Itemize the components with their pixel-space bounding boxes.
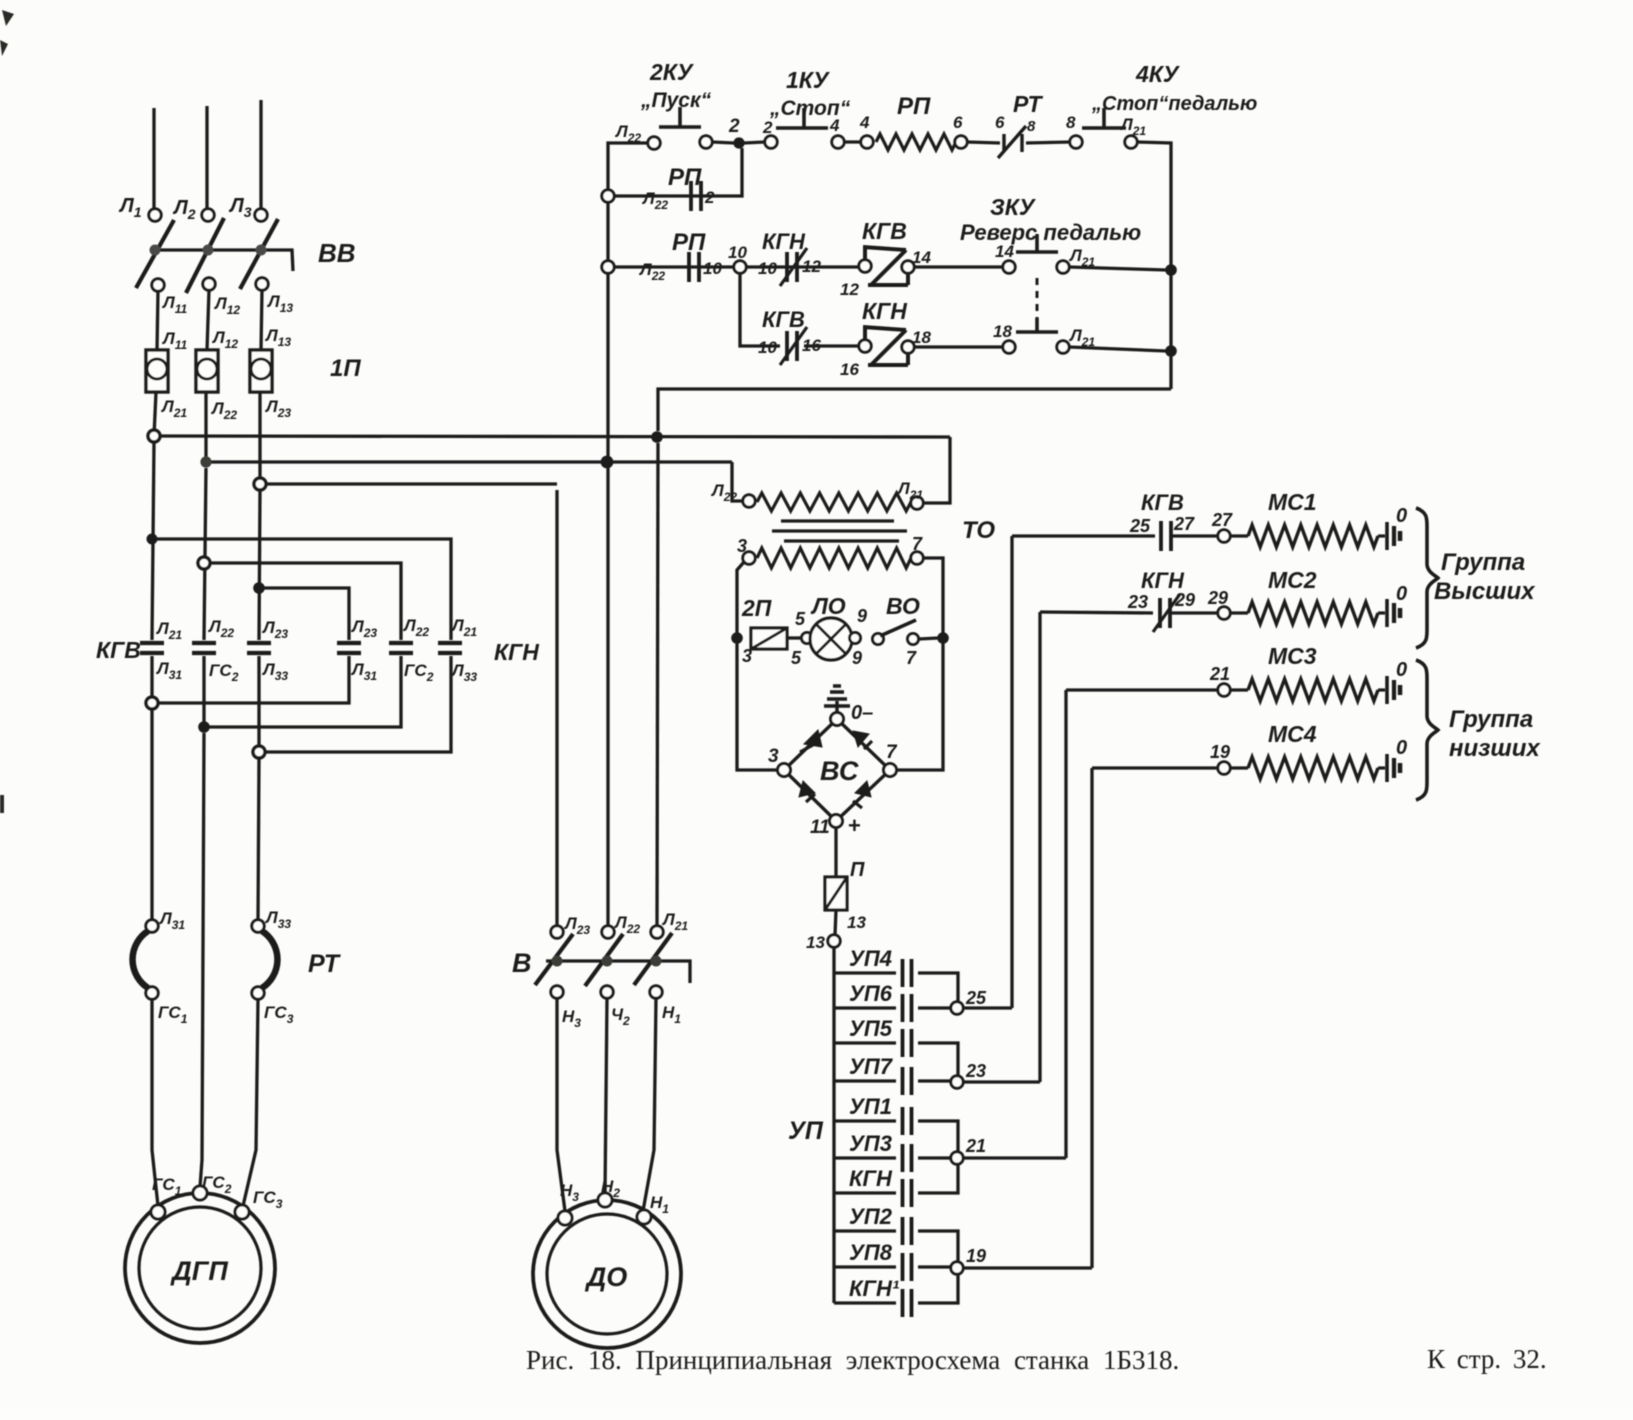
wire MC2 row left [1040,612,1153,613]
node 21 [951,1152,963,1164]
node L21 B switch [651,926,663,938]
wire L23 bridge to KGN contact 4 [259,588,349,640]
node L2 terminal [202,209,214,221]
svg-text:0–: 0– [851,702,873,724]
contactor contact KGV 2 [192,643,216,653]
svg-text:УП4: УП4 [849,946,892,971]
clutch winding MC3 [1248,679,1378,701]
svg-text:УП5: УП5 [849,1016,893,1041]
node 29 [1218,607,1230,619]
brace group higher [1416,508,1438,648]
svg-text:КГВ: КГВ [762,307,805,332]
contact RT thermal NC [998,126,1026,158]
pushbutton 2KU start NO [659,107,701,127]
svg-text:КГН: КГН [762,229,806,254]
wire L33 down to RT2 [258,758,259,920]
svg-text:21: 21 [965,1136,986,1156]
wire UP7 to node23 [940,1079,951,1082]
switch ВО [873,620,919,645]
svg-text:12: 12 [802,257,821,276]
transformer TO core [772,521,907,541]
svg-text:ВО: ВО [886,593,920,619]
contact KGV 25-27 [1161,521,1171,551]
wire B switch bus [546,961,690,983]
wire L22 bridge to KGN contact 5 [204,563,401,640]
pushbutton 1KU stop NC [765,108,844,148]
junction bus L21 left [148,430,160,442]
svg-text:МС2: МС2 [1268,567,1317,593]
node L22 start button [648,137,660,149]
svg-text:0: 0 [1396,505,1407,527]
svg-text:ВВ: ВВ [318,238,356,268]
svg-text:УП3: УП3 [849,1131,892,1156]
wire L11 to fuse [157,291,158,350]
wire node25 right [963,1006,1012,1009]
svg-text:9: 9 [852,648,862,668]
plug switch УП5 row [834,1029,940,1057]
wire L21 return to bus1 [658,389,1171,431]
svg-text:8: 8 [1027,118,1036,135]
plug switch УП2 row [834,1217,940,1245]
node 14 3KU left [1003,261,1015,273]
wire N1 to motor DO [643,998,656,1211]
wire node10 down to row3 [740,273,780,346]
svg-text:19: 19 [966,1246,986,1266]
svg-text:10: 10 [758,259,777,278]
svg-text:19: 19 [1210,742,1230,762]
clutch winding MC1 [1248,525,1378,547]
svg-text:низших: низших [1449,735,1541,762]
contact KGN NC 10-12 [780,248,807,286]
node L22 B switch [602,926,614,938]
wire L22 tap to control [608,143,654,190]
svg-text:ЛО: ЛО [810,593,846,619]
svg-text:25: 25 [1129,516,1151,536]
svg-text:В: В [512,948,532,978]
wire TO sec 7 down to VS 7 [897,558,943,770]
switch 3KU reverse pedal row2 [1016,234,1058,252]
wire node23 right [963,1080,1040,1083]
clutch winding MC4 [1248,757,1378,779]
svg-text:КГВ: КГВ [96,637,141,663]
switch B blade 2 [585,934,623,986]
wire L33 bottom bridge [259,656,451,752]
svg-text:0: 0 [1396,583,1407,605]
svg-text:2: 2 [762,118,773,137]
node 2KU right [700,136,712,148]
wire L21 down to KGV contact 1 [152,442,154,640]
node 18 row3 [1003,341,1015,353]
node 3KU right row2 [1057,261,1069,273]
svg-text:КГВ: КГВ [862,218,907,244]
mechanical link 3KU dashed [1036,278,1039,330]
node 23 [951,1076,963,1088]
wire L21 bridge to KGN contact 6 [152,539,451,640]
svg-text:УП8: УП8 [849,1240,893,1265]
wire MC4 row left [1092,766,1218,769]
svg-text:18: 18 [993,322,1012,341]
svg-text:21: 21 [1209,664,1230,684]
junction lamp branch right [937,632,949,644]
svg-text:7: 7 [886,742,898,763]
node L12 [203,278,215,290]
svg-text:РТ: РТ [1013,91,1043,117]
junction BB blade 2 [203,245,214,256]
wire L13 to fuse [261,290,262,350]
clutch symbol MC3 [1378,676,1400,704]
svg-text:0: 0 [1396,659,1407,681]
node N2 [601,986,613,998]
svg-text:11: 11 [810,817,830,838]
svg-text:29: 29 [1207,588,1228,608]
contact KGV NC 10-16 [780,327,807,365]
svg-text:27: 27 [1211,510,1233,530]
svg-text:ТО: ТО [962,517,995,544]
wire UP1 to node21 [940,1121,958,1152]
junction L31 bottom [146,697,158,709]
contact KGN 23-29 NC [1153,594,1180,632]
svg-text:12: 12 [840,280,859,299]
plug switch УП8 row [834,1253,940,1281]
wire right bus L21 control [1137,142,1171,389]
switch 3KU reverse pedal row3 [1016,318,1058,332]
ground symbol VS [824,686,850,712]
svg-text:УП7: УП7 [849,1054,894,1079]
node TO primary L21 [911,497,923,509]
plug switch УП3 row [834,1144,940,1172]
svg-text:П: П [850,859,865,881]
svg-text:10: 10 [728,243,747,262]
junction right bus row2 [1165,264,1177,276]
svg-text:4КУ: 4КУ [1135,61,1181,87]
wire coil to 3KU [914,265,1003,268]
switch BB blade 3 [240,219,278,289]
diode VS bottom-left [799,781,815,802]
plug switch УП4 row [834,959,940,987]
svg-text:14: 14 [912,248,931,267]
node RP row2 left [602,261,614,273]
wire node25 up to MC1 [1010,536,1013,1008]
node RP selfhold left [602,190,614,202]
clutch symbol MC1 [1378,522,1400,550]
wire left vertical control [606,202,609,261]
svg-text:8: 8 [1066,113,1076,132]
contactor contact KGN 1 [337,643,361,653]
svg-text:16: 16 [840,360,859,379]
clutch winding MC2 [1248,602,1378,624]
thermal element RT phase 1 [133,920,159,999]
switch B blade 3 [634,933,672,985]
node TO primary L22 [743,495,755,507]
diode VS top-right [853,731,872,749]
wire L23 down to KGV contact 3 [259,490,260,640]
svg-text:13: 13 [806,933,825,952]
node 25 [951,1002,963,1014]
node 4 RP coil left [861,136,873,148]
junction B blade 3 [651,956,662,967]
wire node23 up to MC2 [1038,612,1041,1082]
svg-text:4: 4 [859,113,870,132]
wire node10 to KGN contact [746,265,859,268]
svg-text:РП: РП [897,93,931,120]
wire L21 fuse to bus1 [154,392,156,436]
wire VO to right wall [919,638,938,639]
wire node19 up to MC4 [1090,768,1093,1268]
svg-text:23: 23 [965,1061,986,1081]
motor DO [533,1193,681,1348]
svg-text:3: 3 [737,536,747,556]
wire KGN row to node21 [940,1164,958,1193]
pushbutton 4KU stop pedal NC [1070,108,1137,148]
wire L22 down to KGV contact 2 [204,468,206,640]
wire L12 to fuse [207,290,209,350]
wire UP2 to node19 [940,1231,958,1262]
junction L23 bridge [253,582,265,594]
brace group lower [1416,660,1438,800]
wire L23 down to B switch [555,490,558,926]
svg-text:КГН: КГН [494,639,539,665]
wire 1KU to RP coil [844,140,861,143]
svg-text:1П: 1П [330,355,361,382]
wire bus2 to TO primary L22 [732,462,743,501]
wire MC1 row left [1012,534,1155,537]
junction right bus row3 [1165,345,1177,357]
wire L31 down to RT1 [150,709,153,920]
svg-text:27: 27 [1173,514,1195,534]
svg-text:29: 29 [1174,590,1195,610]
plug switch УП1 row [834,1107,940,1135]
node N1 [650,986,662,998]
switch BB blade 1 [136,220,174,288]
wire L31 bottom bridge [152,656,349,703]
svg-text:6: 6 [953,113,963,132]
svg-text:2: 2 [704,188,715,207]
node N3 [551,986,563,998]
node 19 [951,1262,963,1274]
wire BB switch bus [153,250,293,271]
svg-text:18: 18 [912,328,931,347]
svg-text:3: 3 [768,746,779,767]
svg-text:РТ: РТ [308,950,342,978]
svg-text:25: 25 [965,988,987,1008]
svg-text:5: 5 [795,609,806,629]
plug switch УП7 row [834,1067,940,1095]
wire to node27 [1172,534,1218,537]
fuse 1П element 1 [146,350,168,392]
contact RP selfhold L22-2 [691,181,701,211]
svg-text:РП: РП [672,229,706,256]
fuse 2П [751,628,787,649]
junction BB blade 3 [256,245,267,256]
contactor contact KGV 1 [140,643,164,653]
wire phase L1 input [152,108,155,209]
svg-text:КГН¹: КГН¹ [849,1276,900,1301]
wire fuse to lamp [787,636,801,639]
svg-text:УП6: УП6 [849,981,893,1006]
wire GS2 down to motor DGP [200,733,204,1187]
wire node21 right [963,1156,1066,1159]
diode VS top-left [800,730,822,752]
clutch symbol MC4 [1378,754,1400,782]
svg-text:КГВ: КГВ [1141,490,1184,515]
svg-text:„Стоп“педалью: „Стоп“педалью [1091,93,1257,115]
transformer TO secondary winding [757,548,911,568]
junction GS2 bottom [198,721,210,733]
wire L22 fuse to bus2 [204,392,207,462]
svg-text:2: 2 [728,116,740,137]
wire RP selfhold to node2 [614,148,742,196]
node 10 [734,261,746,273]
fuse 1П element 2 [196,350,218,392]
wire GS2 bottom bridge [204,656,401,727]
svg-text:7: 7 [912,534,923,554]
diode VS bottom-right [853,781,871,808]
junction bus L22 left [200,456,211,467]
wire UP5 to node23 [940,1043,958,1076]
wire UP4 to node25 [940,973,958,1002]
svg-text:0: 0 [1396,737,1407,759]
svg-text:Высших: Высших [1434,578,1536,605]
svg-text:КГН: КГН [849,1166,893,1191]
junction bus L23 left [254,478,266,490]
junction L21 bridge [147,534,158,545]
wire bus1 to TO primary L21 [923,437,950,503]
svg-text:МС3: МС3 [1268,643,1317,669]
junction bus L21 at B column [651,431,663,443]
wire L23 fuse to bus3 [258,392,261,484]
contactor contact KGV 3 [247,643,271,653]
svg-text:Реверс педалью: Реверс педалью [960,220,1141,245]
node L23 B switch [551,926,563,938]
switch B blade 1 [535,934,573,985]
svg-text:„Стоп“: „Стоп“ [769,97,851,120]
node L3 terminal [255,209,267,221]
fuse 1П element 3 [250,350,272,392]
svg-text:„Пуск“: „Пуск“ [640,89,712,112]
svg-text:КГН: КГН [862,298,907,324]
scan artifact specks [0,10,14,56]
wire row3 to right bus [1069,347,1166,351]
wire GS1 to motor DGP [152,999,158,1206]
wire row2 left segment [614,265,734,268]
wire to MC4 resistor [1230,766,1248,769]
wire UP6 to node25 [940,1006,951,1009]
wire node21 up to MC3 [1064,690,1067,1158]
svg-text:5: 5 [791,648,802,668]
fuse П [825,877,847,910]
clutch symbol MC2 [1378,599,1400,627]
wire N3 to motor DO [557,998,565,1211]
wire left vertical to B switch L22 [606,273,609,926]
wire node27 to MC1 resistor [1230,534,1248,537]
plug switch УП6 row [834,994,940,1022]
wire node19 right [963,1266,1092,1269]
wire bus L23 horizontal [260,482,557,485]
svg-text:23: 23 [1127,592,1148,612]
wire to node 2 [712,142,734,143]
transformer TO primary winding [757,493,911,511]
contactor contact KGN 3 [438,643,462,653]
svg-text:2КУ: 2КУ [649,59,695,85]
wire phase L3 input [259,100,262,209]
motor DGP [125,1186,275,1343]
node TO secondary 3 [743,552,755,564]
svg-text:ЗКУ: ЗКУ [990,194,1037,220]
wire row2 to right bus [1069,267,1166,270]
junction L33 bottom [253,746,265,758]
relay coil RP (resistor style) [876,134,956,150]
svg-text:10: 10 [703,259,722,278]
wire coil KGN to 3KU row3 [914,345,1003,348]
wire GS3 to motor DGP [243,999,258,1206]
svg-text:6: 6 [995,113,1005,132]
wire to KGN coil [804,344,859,347]
svg-text:7: 7 [906,648,917,668]
wire to RT contact [967,142,1000,143]
svg-text:Группа: Группа [1449,706,1533,733]
svg-text:1КУ: 1КУ [786,67,831,93]
plug switch КГН row [834,1179,940,1207]
node L11 [152,279,164,291]
junction bus L22 at B column [601,456,614,469]
wire to MC3 resistor [1230,688,1248,691]
wire N2 to motor DO [605,998,607,1194]
node TO secondary 7 [911,552,923,564]
wire bus L22 horizontal [206,460,732,463]
node L13 [256,278,268,290]
svg-text:9: 9 [857,606,867,626]
wire fuse P to node 13 [835,910,836,935]
node 19 MC4 [1218,762,1230,774]
svg-text:+: + [848,813,861,838]
contactor coil KGV [859,247,914,285]
svg-text:13: 13 [847,913,866,932]
junction L22 bridge [198,557,210,569]
junction BB blade 1 [150,245,161,256]
contact RP L22-10 [689,252,699,282]
wire node29 to MC2 resistor [1230,611,1248,614]
svg-text:Группа: Группа [1441,549,1525,576]
wire KGN1 row to node19 [940,1274,958,1303]
wire UP8 to node19 [940,1265,951,1268]
wire TO sec 3 down to VS 3 [737,562,777,770]
wire phase L2 input [205,106,208,209]
svg-text:РП: РП [668,164,702,191]
svg-text:Рис. 18. Принципиальная электр: Рис. 18. Принципиальная электросхема ста… [526,1345,1179,1375]
junction B blade 1 [552,956,563,967]
plug switch КГН¹ row [834,1289,940,1317]
wire bus L21 horizontal [154,436,950,437]
thermal element RT phase 3 [252,920,278,999]
node 27 [1218,530,1230,542]
svg-text:ДГП: ДГП [170,1256,228,1286]
svg-text:УП: УП [788,1117,824,1145]
wire MC3 row left [1066,688,1218,691]
node 13 [828,935,840,947]
svg-text:10: 10 [758,338,777,357]
switch BB blade 2 [186,218,224,293]
svg-text:ВС: ВС [820,756,859,786]
wire UP3 to node21 [940,1156,951,1159]
lamp ЛО [802,618,861,660]
svg-text:МС1: МС1 [1268,489,1317,515]
node 21 MC3 [1218,684,1230,696]
wire B column L21 down [657,443,658,926]
node 6 RP coil right [955,136,967,148]
junction lamp branch left [731,632,743,644]
contactor contact KGN 2 [389,643,413,653]
wire to node29 [1171,611,1218,614]
